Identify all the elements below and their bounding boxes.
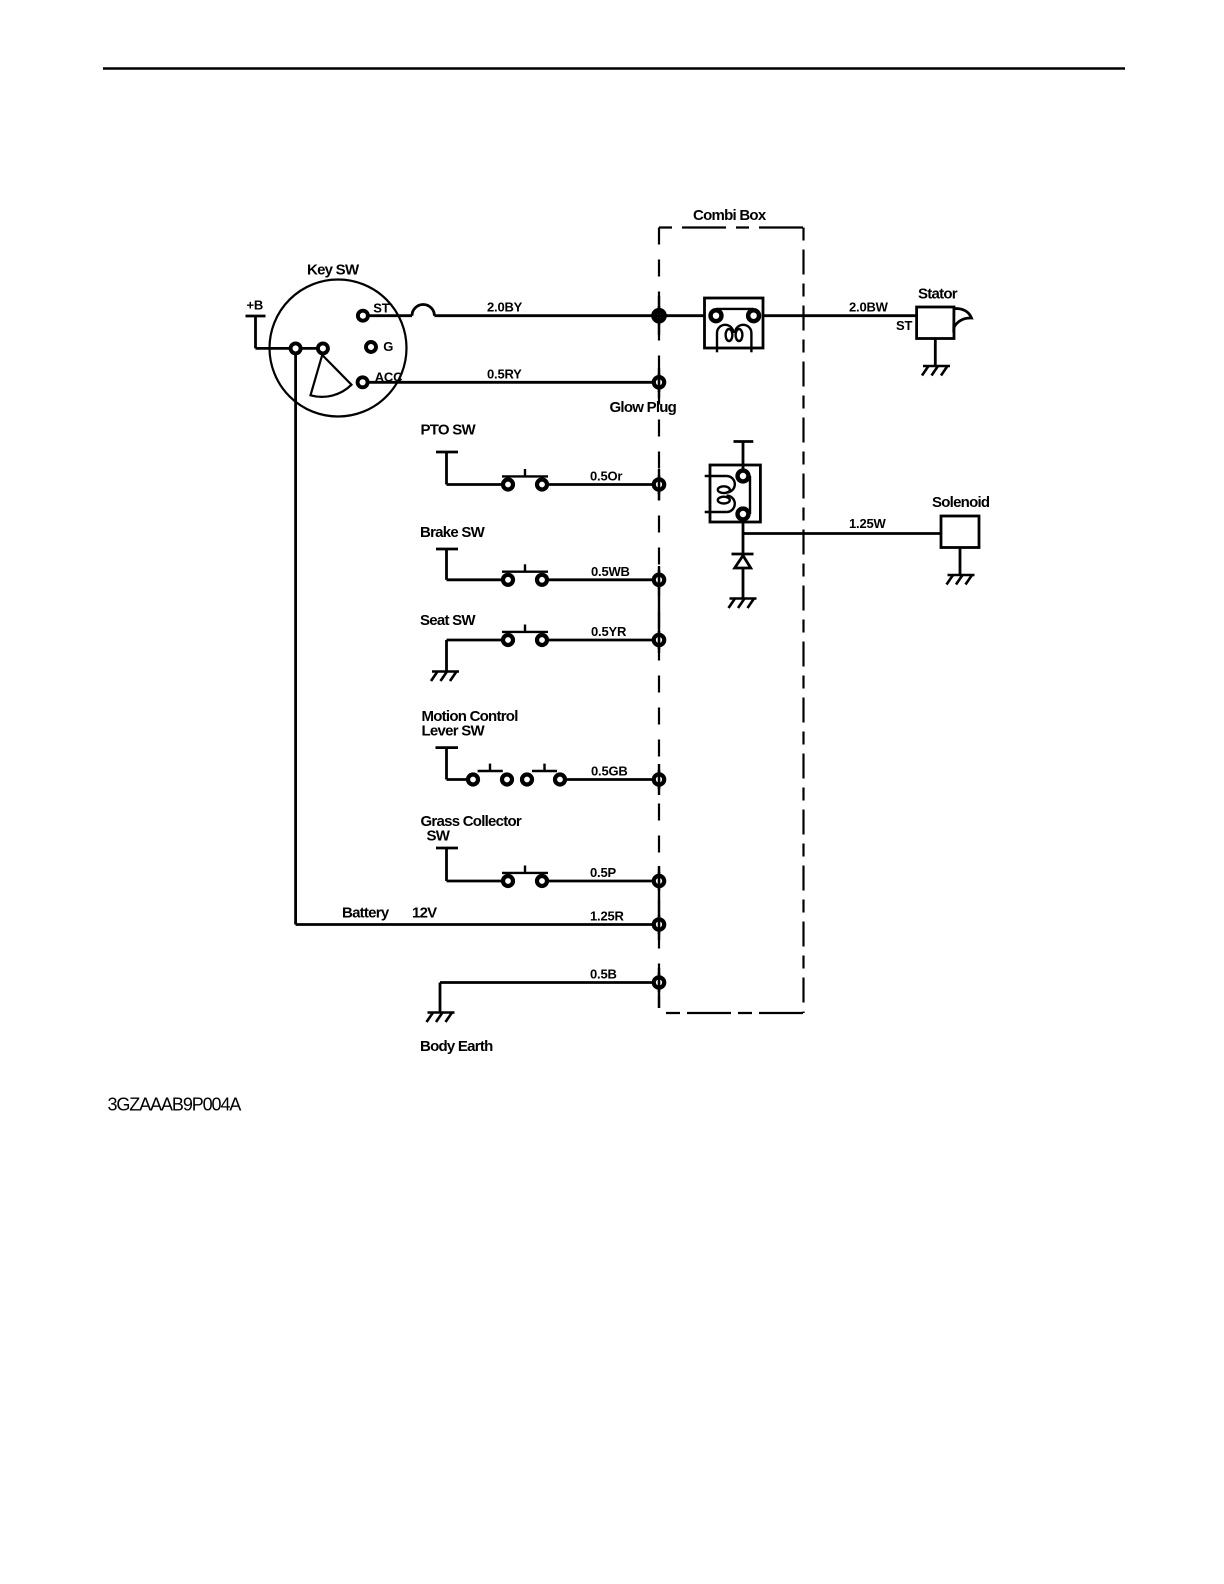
svg-text:12V: 12V (412, 905, 437, 922)
svg-text:PTO SW: PTO SW (421, 422, 477, 439)
svg-text:SW: SW (427, 828, 451, 845)
svg-text:2.0BY: 2.0BY (487, 300, 523, 315)
svg-text:+B: +B (247, 298, 264, 313)
svg-text:ACC: ACC (375, 370, 403, 385)
svg-text:ST: ST (896, 318, 912, 333)
svg-text:Stator: Stator (918, 286, 958, 303)
svg-text:3GZAAAB9P004A: 3GZAAAB9P004A (108, 1095, 242, 1115)
svg-text:Brake SW: Brake SW (420, 524, 486, 541)
svg-text:1.25R: 1.25R (590, 909, 625, 924)
svg-text:0.5YR: 0.5YR (591, 624, 627, 639)
svg-text:ST: ST (373, 301, 389, 316)
svg-text:2.0BW: 2.0BW (849, 300, 889, 315)
svg-text:0.5Or: 0.5Or (590, 469, 622, 484)
svg-text:Combi Box: Combi Box (693, 207, 767, 224)
svg-text:0.5WB: 0.5WB (591, 564, 630, 579)
svg-text:0.5RY: 0.5RY (487, 366, 522, 381)
svg-text:0.5B: 0.5B (590, 967, 617, 982)
svg-text:0.5P: 0.5P (590, 865, 616, 880)
svg-text:Solenoid: Solenoid (932, 494, 990, 511)
svg-text:Key SW: Key SW (307, 262, 360, 279)
svg-text:0.5GB: 0.5GB (591, 764, 628, 779)
svg-text:Battery: Battery (342, 905, 390, 922)
svg-text:G: G (383, 339, 393, 354)
svg-text:Seat SW: Seat SW (420, 612, 476, 629)
svg-text:Glow Plug: Glow Plug (610, 399, 677, 416)
svg-text:1.25W: 1.25W (849, 516, 887, 531)
svg-text:Body Earth: Body Earth (420, 1038, 493, 1055)
svg-text:Lever SW: Lever SW (422, 723, 486, 740)
